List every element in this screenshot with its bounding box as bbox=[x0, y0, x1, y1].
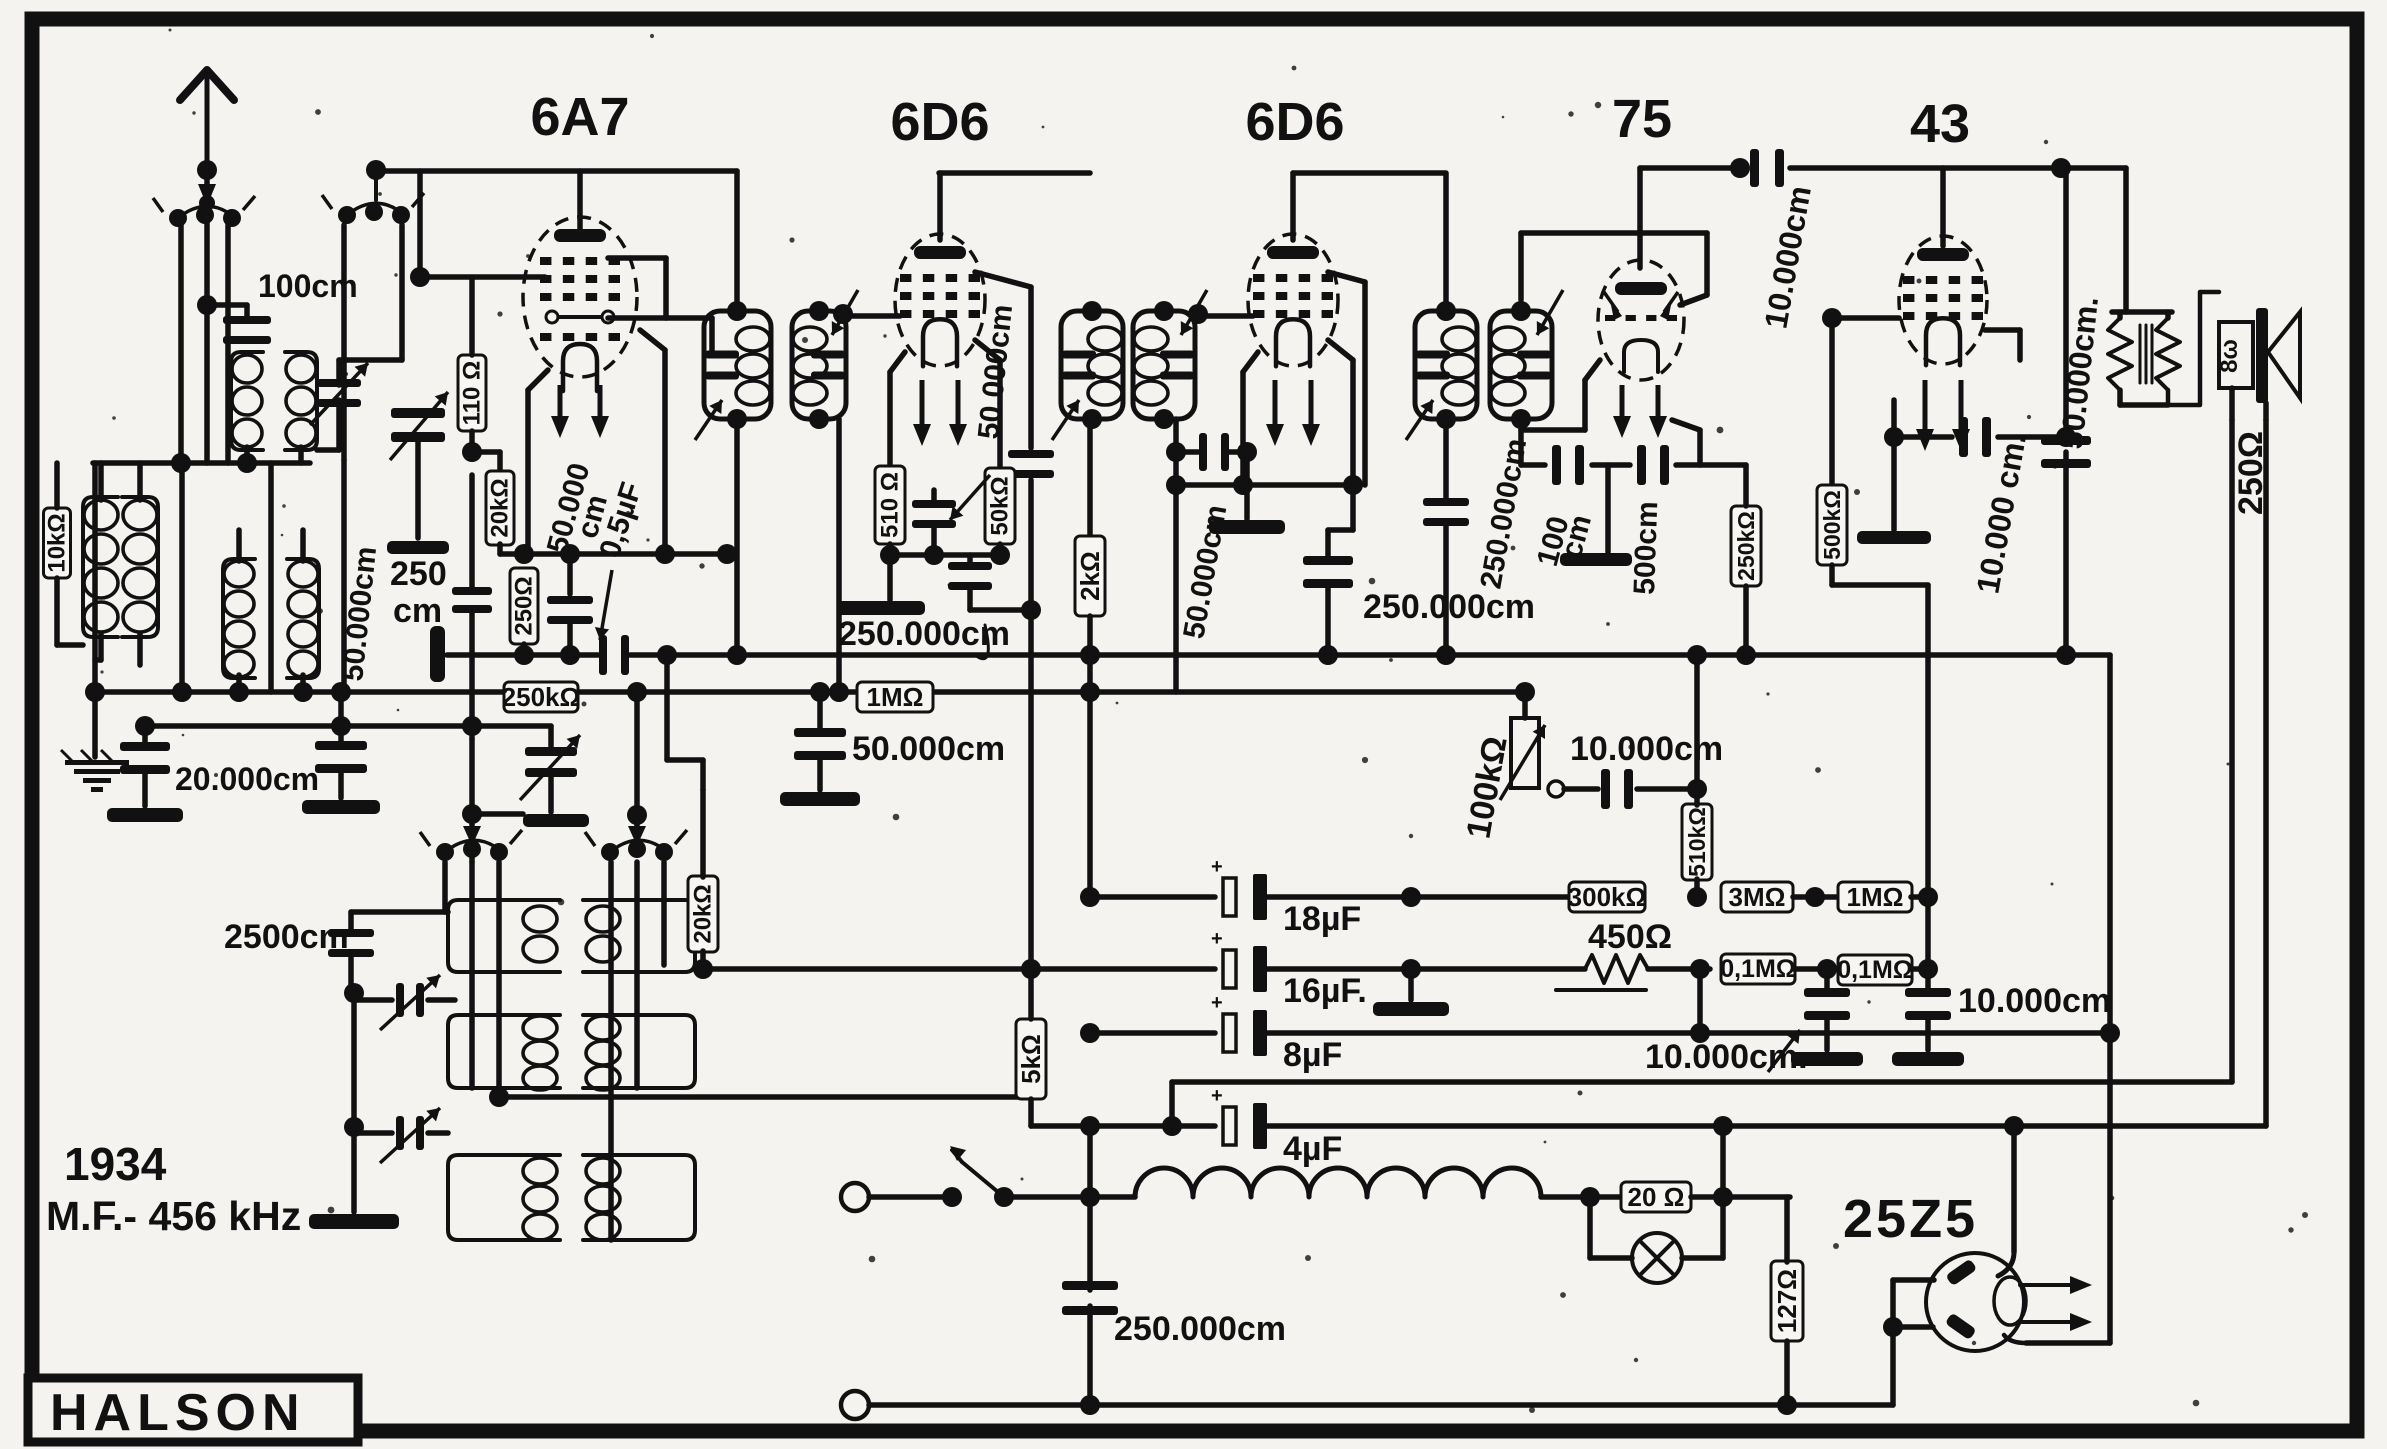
wire 4uF line bbox=[1090, 1123, 1215, 1129]
wire 1M end bbox=[1911, 894, 1928, 900]
svg-text:+: + bbox=[1211, 992, 1223, 1014]
wire term1 bbox=[869, 1194, 944, 1200]
wire row485 6D6b bbox=[1176, 482, 1353, 488]
wire L3 bottom bbox=[244, 447, 250, 463]
wire rail 1082 bbox=[1172, 1079, 2232, 1085]
wire riser IFT1L top bbox=[734, 171, 740, 311]
wire 6A7 grid2 bbox=[608, 255, 666, 261]
wire L coil bottoms bbox=[98, 634, 104, 660]
resistor 1MΩ bus bbox=[857, 682, 933, 712]
wire 2066 vert bbox=[2063, 168, 2069, 437]
wire 2500 top bbox=[351, 909, 448, 915]
svg-text:2500cm: 2500cm bbox=[224, 918, 349, 956]
wire L1 leads bbox=[98, 463, 104, 500]
resistor 10kΩ bbox=[44, 508, 71, 578]
capacitor 6D6b coupling bbox=[1199, 433, 1207, 471]
resistor 300kΩ bbox=[1569, 882, 1645, 912]
wire 341 up bbox=[341, 460, 347, 692]
wire 100cm branch bbox=[207, 302, 247, 308]
wire 16uF line bbox=[703, 966, 1215, 972]
coil L5 bbox=[223, 559, 255, 678]
capacitor 50000cm 43 bbox=[2041, 436, 2091, 445]
resistor 50kΩ bbox=[985, 468, 1015, 544]
node railB dots bbox=[85, 682, 105, 702]
wire railB-C link bbox=[338, 692, 344, 729]
wire 6A7 shield right bbox=[640, 330, 665, 350]
svg-text:20kΩ: 20kΩ bbox=[487, 478, 514, 537]
svg-text:10.000cm: 10.000cm bbox=[1958, 982, 2111, 1020]
wire B+ rail A bbox=[737, 652, 2110, 658]
wire 20R out bbox=[1691, 1194, 1790, 1200]
svg-text:20.000cm: 20.000cm bbox=[175, 761, 319, 797]
wire riser 6A7 topcap bbox=[577, 171, 583, 235]
svg-text:6D6: 6D6 bbox=[1245, 92, 1344, 152]
wire AVC rail B bbox=[95, 689, 505, 695]
resistor 250kΩ bus bbox=[504, 682, 578, 712]
svg-text:250.000cm: 250.000cm bbox=[1114, 1310, 1286, 1348]
wire L5 tops bbox=[236, 530, 242, 561]
wire pot to cap bbox=[1564, 786, 1598, 792]
wire row651 bbox=[447, 652, 598, 658]
ground main bbox=[92, 692, 98, 757]
svg-text:25Z5: 25Z5 bbox=[1843, 1189, 1978, 1249]
ground padder bar bbox=[387, 541, 449, 554]
svg-text:510 Ω: 510 Ω bbox=[877, 472, 904, 538]
capacitor 100cm 75 bbox=[1552, 445, 1561, 485]
wire ot top bbox=[2112, 309, 2172, 315]
node osc mid bbox=[489, 1087, 509, 1107]
ground oscillator bbox=[309, 1214, 399, 1229]
switch S1 antenna bbox=[169, 209, 187, 227]
coil osc L2b bbox=[583, 1015, 695, 1088]
svg-text:10kΩ: 10kΩ bbox=[44, 513, 71, 572]
coil L6 bbox=[287, 559, 319, 678]
trimmer cap osc 2 bbox=[396, 1116, 404, 1150]
svg-text:450Ω: 450Ω bbox=[1588, 918, 1672, 956]
svg-text:10.000cm.: 10.000cm. bbox=[1645, 1038, 1808, 1076]
wire 25Z5 plate riser bbox=[2011, 1126, 2017, 1252]
wire 6D6a grid from IFT1B bbox=[843, 313, 900, 319]
wire 6D6a grid to AVC bbox=[975, 272, 1031, 287]
wire row554 bbox=[500, 551, 727, 557]
wire 110 bottom bbox=[469, 431, 475, 450]
node osc left bbox=[344, 983, 364, 1003]
capacitor 20000cm bbox=[142, 729, 148, 745]
svg-text:cm: cm bbox=[393, 592, 442, 630]
wire 127 leads bbox=[1784, 1197, 1790, 1262]
node ant2 bbox=[199, 195, 215, 211]
wire 43 cath row bbox=[1891, 400, 1897, 437]
wire 6D6b shield left bbox=[1243, 352, 1258, 372]
wire varcap leads bbox=[399, 225, 405, 360]
wire B+ rail 6D6b bbox=[1293, 170, 1445, 176]
electrolytic 8µF bbox=[1223, 1014, 1236, 1052]
capacitor variable tuning 1 bbox=[317, 379, 361, 387]
trimmer arrow IFT2A bbox=[1052, 400, 1079, 440]
capacitor 10000cm top bbox=[1750, 149, 1759, 187]
capacitor railC 2 bbox=[338, 729, 344, 744]
logo HALSON box bbox=[28, 1378, 358, 1442]
antenna bbox=[180, 70, 234, 100]
wire 2k bottom bbox=[1087, 616, 1093, 897]
wire riser IFT3A top bbox=[1443, 173, 1449, 311]
capacitor 50000cm 6A7 bbox=[567, 554, 573, 594]
terminal AC1 bbox=[841, 1183, 869, 1211]
capacitor 10000cm coupling bbox=[1601, 769, 1610, 809]
capacitor 50000cm bus bbox=[817, 692, 823, 730]
wire osc avcline bbox=[499, 1094, 1031, 1100]
wire 43 grid vert bbox=[1829, 318, 1835, 486]
resistor 1MΩ chain bbox=[1838, 882, 1912, 912]
wire 6A7 shield left bbox=[528, 370, 548, 390]
resistor 5kΩ bbox=[1016, 1019, 1046, 1099]
terminal AC2 bbox=[841, 1391, 869, 1419]
svg-text:18µF: 18µF bbox=[1283, 900, 1361, 938]
ground 75 bbox=[1605, 465, 1611, 552]
capacitor 250000cm mains bbox=[1062, 1281, 1118, 1290]
wire IFT1B bottom to AVC bbox=[836, 419, 842, 692]
svg-text:250Ω: 250Ω bbox=[2232, 431, 2270, 515]
wire 1697 vert bbox=[1694, 655, 1700, 789]
wire 01M end bbox=[1911, 966, 1928, 972]
wire railB to pot bbox=[1522, 692, 1528, 718]
tube 75 bbox=[1598, 260, 1684, 380]
wire sw to node bbox=[1004, 1194, 1090, 1200]
arrow 75 cathode a bbox=[1620, 385, 1625, 426]
node ant3 bbox=[197, 295, 217, 315]
svg-text:43: 43 bbox=[1910, 94, 1970, 154]
speaker bbox=[2219, 322, 2253, 388]
wire 6A7 grid line bbox=[420, 274, 545, 280]
wire ot to speaker bbox=[2168, 292, 2219, 405]
wire 20R riser bbox=[1720, 1126, 1726, 1197]
coil L4 bbox=[285, 352, 317, 450]
wire row465 75 bbox=[1521, 462, 1545, 468]
transformer IFT3 unit B bbox=[1490, 311, 1552, 419]
wire 6D6b shield right bbox=[1328, 340, 1353, 360]
transformer IFT2 unit B bbox=[1133, 311, 1195, 419]
wire riser 6D6a top bbox=[937, 173, 943, 240]
capacitor 0,5µF bbox=[599, 635, 607, 675]
trimmer arrow IFT1B bbox=[832, 290, 858, 335]
wire 6D6a shield left bbox=[890, 352, 905, 372]
wire 25Z5 down bbox=[1890, 1327, 1896, 1405]
node 4uF dots bbox=[1162, 1116, 1182, 1136]
wire osc verts R bbox=[608, 862, 614, 1240]
svg-text:110 Ω: 110 Ω bbox=[459, 361, 486, 426]
svg-text:+: + bbox=[1211, 928, 1223, 950]
capacitor shield plate bbox=[430, 626, 445, 682]
electrolytic 18µF bbox=[1223, 878, 1236, 916]
capacitor 100cm bbox=[223, 316, 271, 324]
wire IFT3A bottom bbox=[1443, 419, 1449, 498]
svg-text:4µF: 4µF bbox=[1283, 1130, 1342, 1168]
tube 25Z5 bbox=[1926, 1253, 2024, 1351]
svg-text:16µF.: 16µF. bbox=[1283, 972, 1367, 1010]
arrow 43 cathode a bbox=[1923, 380, 1928, 439]
svg-text:250Ω: 250Ω bbox=[511, 576, 538, 635]
svg-text:10.000cm: 10.000cm bbox=[1570, 730, 1723, 768]
transformer IFT3 unit A bbox=[1415, 311, 1477, 419]
wire B+ rail 75-43 bbox=[1640, 165, 1745, 171]
svg-text:50.000cm: 50.000cm bbox=[852, 730, 1005, 768]
svg-text:20 Ω: 20 Ω bbox=[1628, 1182, 1685, 1212]
wire ant down bbox=[204, 176, 210, 305]
transformer IFT1 unit A bbox=[704, 311, 771, 419]
tube 6A7 bbox=[523, 217, 637, 377]
wire 182 up bbox=[179, 463, 185, 692]
wire field vert a bbox=[2229, 420, 2235, 1082]
capacitor 10000cm b bbox=[1925, 969, 1931, 990]
transformer IFT1 unit B bbox=[792, 311, 846, 419]
coil L2 antenna secondary bbox=[122, 497, 158, 637]
wire 6A7 anode row bbox=[608, 315, 712, 321]
svg-text:20kΩ: 20kΩ bbox=[690, 884, 717, 943]
wire 25Z5 cathode bbox=[2026, 1340, 2110, 1346]
svg-text:300kΩ: 300kΩ bbox=[1568, 882, 1647, 912]
wire padder bbox=[415, 438, 421, 538]
svg-text:250: 250 bbox=[390, 555, 447, 593]
resistor 20Ω bbox=[1621, 1182, 1691, 1212]
trimmer arrow IFT3A bbox=[1406, 400, 1433, 440]
svg-text:500kΩ: 500kΩ bbox=[1819, 490, 1845, 560]
wire 25Z5 left leads bbox=[1893, 1277, 1934, 1283]
svg-text:M.F.- 456 kHz: M.F.- 456 kHz bbox=[46, 1193, 301, 1239]
wire 6D6a shield right bbox=[975, 340, 1000, 360]
arrow 25Z5 out2 bbox=[2022, 1320, 2080, 1324]
ground 16uF bbox=[1408, 969, 1414, 1000]
lamp pilot bbox=[1587, 1197, 1593, 1258]
electrolytic 16µF bbox=[1223, 950, 1236, 988]
wire vert 1090 lower bbox=[1087, 1126, 1093, 1290]
resistor 250kΩ vert bbox=[1731, 506, 1761, 586]
svg-text:HALSON: HALSON bbox=[50, 1384, 306, 1442]
coil L3 bbox=[231, 352, 263, 450]
switch S2 contacts bbox=[601, 843, 619, 861]
wire vert 472 down bbox=[469, 475, 475, 588]
svg-text:1MΩ: 1MΩ bbox=[1847, 882, 1904, 912]
tube 6D6 second bbox=[1248, 234, 1338, 366]
coil osc L1a bbox=[448, 900, 560, 972]
arrow 75 cathode b bbox=[1656, 385, 1661, 426]
svg-text:6A7: 6A7 bbox=[530, 87, 629, 147]
resistor 110Ω bbox=[458, 355, 486, 431]
arrow 6A7 cathode a bbox=[558, 385, 563, 426]
wire 1700 link bbox=[1697, 969, 1703, 1033]
electrolytic 4µF bbox=[1223, 1107, 1236, 1145]
wire 8uF line bbox=[1090, 1030, 1215, 1036]
arrow 6D6b cathode a bbox=[1273, 380, 1278, 434]
wire 75 grid bracket bbox=[1518, 233, 1524, 300]
wire 6D6b grid from IFT2B bbox=[1198, 313, 1253, 319]
wire rail C bbox=[145, 723, 551, 729]
arrow 6D6a cathode b bbox=[956, 380, 961, 434]
svg-text:0,1MΩ: 0,1MΩ bbox=[1837, 956, 1913, 984]
node osc left2 bbox=[344, 1117, 364, 1137]
wire IFT2B bottom lead bbox=[1173, 419, 1179, 692]
wire B+ rail 6A7 bbox=[370, 168, 737, 174]
arrow 43 cathode b bbox=[1959, 380, 1964, 439]
wire 250k leads bbox=[1743, 465, 1749, 506]
wire B+ down right bbox=[2107, 655, 2113, 1343]
wire top rail corner bbox=[2123, 168, 2129, 312]
node top 2061 bbox=[2051, 158, 2071, 178]
wire 6D6b grid2 bbox=[1328, 272, 1365, 282]
output transformer core bbox=[2139, 325, 2142, 383]
trimmer cap osc 1 bbox=[396, 983, 404, 1017]
svg-text:500cm: 500cm bbox=[1628, 501, 1664, 596]
svg-text:250.000cm: 250.000cm bbox=[1363, 588, 1535, 626]
wire cap to node bbox=[1637, 786, 1697, 792]
wire trim1 bbox=[351, 993, 357, 1127]
capacitor 10000cm a bbox=[1824, 969, 1830, 990]
svg-text:5kΩ: 5kΩ bbox=[1016, 1034, 1046, 1084]
svg-text:2kΩ: 2kΩ bbox=[1075, 551, 1105, 601]
svg-text:127Ω: 127Ω bbox=[1772, 1269, 1802, 1333]
choke filter bbox=[1090, 1194, 1135, 1200]
capacitor 2500cm bbox=[328, 929, 374, 937]
capacitor to bus 6D6a bbox=[967, 555, 973, 562]
resistor 450Ω zigzag bbox=[1585, 955, 1648, 983]
svg-text:0,1MΩ: 0,1MΩ bbox=[1720, 955, 1796, 983]
capacitor variable trimmer pad bbox=[548, 726, 554, 748]
wire line y463 bbox=[93, 460, 310, 466]
wire ant arrow bbox=[205, 176, 209, 194]
wire riser IFT1L bottom bbox=[734, 419, 740, 655]
resistor 20kΩ osc bbox=[688, 876, 718, 952]
capacitor variable 250cm bbox=[391, 408, 445, 418]
svg-text:250.000cm: 250.000cm bbox=[838, 615, 1010, 653]
ground 6D6a bbox=[887, 555, 893, 600]
node ant1 bbox=[197, 160, 217, 180]
resistor 2kΩ bbox=[1075, 536, 1105, 616]
wire 20k bottom bbox=[497, 544, 503, 554]
wire L5 bottoms bbox=[236, 675, 242, 692]
capacitor 43 cathode bbox=[1959, 417, 1968, 457]
wire 75 cath frame bbox=[1585, 360, 1600, 380]
svg-text:1MΩ: 1MΩ bbox=[867, 682, 924, 712]
wire bottom rail bbox=[869, 1402, 1893, 1408]
wire 250 bottom bbox=[521, 644, 527, 655]
trimmer arrow IFT2B bbox=[1181, 290, 1207, 335]
coil L1 antenna primary bbox=[83, 497, 118, 637]
arrow 75 diode plates bbox=[1604, 292, 1618, 312]
svg-text:3MΩ: 3MΩ bbox=[1729, 882, 1786, 912]
wire riser 43 top bbox=[1940, 168, 1946, 246]
wire 20k osc leads bbox=[700, 790, 706, 877]
wire 500k bottom bbox=[1829, 565, 1835, 585]
wire ant sw feed bbox=[374, 176, 378, 200]
capacitor 250000cm 6D6b bbox=[1350, 485, 1356, 530]
coil osc L2c bbox=[583, 1155, 695, 1240]
wire trim2 bbox=[354, 1130, 392, 1136]
trimmer arrow IFT1A bbox=[695, 400, 722, 440]
wire 5k leads bbox=[1028, 969, 1034, 1019]
wire 43 screen bbox=[1985, 327, 2020, 333]
resistor 20kΩ 6A7 bbox=[486, 471, 514, 545]
svg-text:+: + bbox=[1211, 1085, 1223, 1107]
wire row555 6D6a bbox=[887, 544, 893, 555]
wire 110 top bbox=[469, 278, 475, 355]
arrow 6A7 cathode b bbox=[598, 385, 603, 426]
resistor 250Ω bbox=[510, 568, 538, 644]
svg-text:1934: 1934 bbox=[64, 1138, 167, 1190]
wire 01M mid bbox=[1794, 966, 1839, 972]
wire riser 6D6b top bbox=[1290, 173, 1296, 240]
output transformer secondary bbox=[2156, 318, 2180, 390]
wire osc verts L bbox=[442, 862, 448, 912]
resistor 0,1MΩ a bbox=[1721, 954, 1795, 984]
svg-text:510kΩ: 510kΩ bbox=[1684, 807, 1710, 877]
switch S2 oscillator top bbox=[338, 206, 356, 224]
resistor 510Ω bbox=[875, 466, 905, 544]
wire ant coil vert a bbox=[178, 225, 184, 463]
trimmer arrow IFT3B bbox=[1537, 290, 1563, 335]
wire osc gnd stem bbox=[351, 1133, 357, 1212]
svg-text:6D6: 6D6 bbox=[890, 92, 989, 152]
svg-text:250kΩ: 250kΩ bbox=[502, 682, 581, 712]
svg-text:+: + bbox=[1211, 856, 1223, 878]
svg-text:75: 75 bbox=[1612, 89, 1672, 149]
wire B+ rail 6D6a bbox=[939, 170, 1090, 176]
wire 510k leads bbox=[1694, 789, 1700, 805]
wire riser 75 top bbox=[1637, 168, 1643, 268]
resistor 0,1MΩ b bbox=[1838, 955, 1912, 985]
potentiometer 100kΩ bbox=[1511, 718, 1539, 788]
capacitor 500cm 75 bbox=[1637, 445, 1646, 485]
resistor 127Ω bbox=[1771, 1261, 1803, 1341]
resistor 3MΩ bbox=[1721, 882, 1793, 912]
tube 6D6 first bbox=[895, 234, 985, 366]
svg-text:8µF: 8µF bbox=[1283, 1036, 1342, 1074]
switch S1 contacts bbox=[436, 843, 454, 861]
arrow 6D6b cathode b bbox=[1309, 380, 1314, 434]
capacitor 50000cm grid bbox=[1008, 450, 1054, 458]
arrow 6D6a cathode a bbox=[920, 380, 925, 434]
arrow 25Z5 out1 bbox=[2020, 1283, 2080, 1287]
wire 3M-1M bbox=[1793, 894, 1839, 900]
wire ant coil vert b bbox=[225, 225, 231, 463]
coil osc L1c bbox=[448, 1155, 560, 1240]
svg-text:50kΩ: 50kΩ bbox=[987, 476, 1014, 535]
coil osc L1b bbox=[448, 1015, 560, 1088]
transformer IFT2 unit A bbox=[1061, 311, 1123, 419]
wire left vert bbox=[92, 463, 98, 692]
wire 10k leads bbox=[54, 463, 60, 508]
wire speaker leads bbox=[2229, 388, 2235, 420]
coil osc L2a bbox=[583, 900, 695, 972]
output transformer primary bbox=[2108, 318, 2132, 390]
wire 18uF line bbox=[1090, 894, 1215, 900]
scan noise specks bbox=[789, 237, 794, 242]
wire 2k top bbox=[1087, 419, 1093, 537]
wire osc sw vert bbox=[341, 225, 347, 460]
wire riser 6A7 grid bbox=[417, 171, 423, 277]
tube 43 bbox=[1899, 236, 1987, 364]
ground 6D6b bbox=[1244, 485, 1250, 519]
resistor 500kΩ bbox=[1817, 485, 1847, 565]
capacitor 50000cm cathode bbox=[931, 490, 937, 500]
ground 43 bbox=[1891, 437, 1897, 530]
resistor 510kΩ bbox=[1682, 804, 1712, 880]
wire field vert b bbox=[2263, 420, 2269, 1126]
svg-text:8ω: 8ω bbox=[2216, 339, 2243, 373]
wire 20k osc feed bbox=[664, 655, 670, 760]
switch mains bbox=[942, 1187, 962, 1207]
svg-text:250kΩ: 250kΩ bbox=[1733, 511, 1759, 581]
wire 43 grid bbox=[1832, 315, 1899, 321]
wire AVC vert bbox=[1028, 480, 1034, 967]
